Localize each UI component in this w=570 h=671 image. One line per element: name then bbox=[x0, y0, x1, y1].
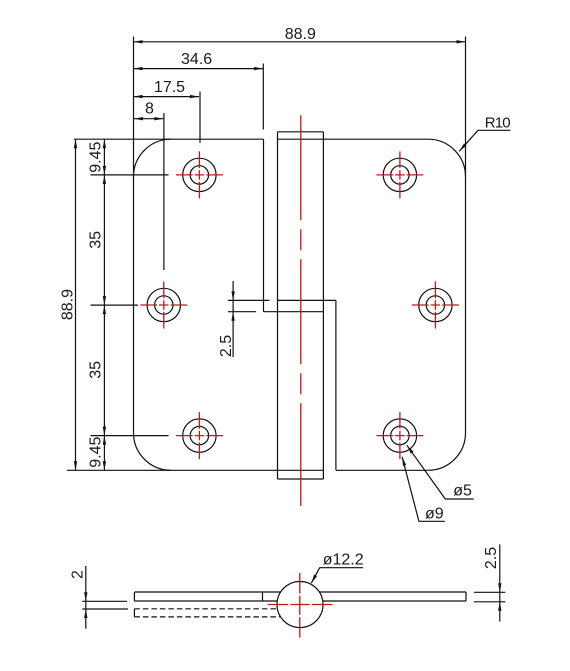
svg-text:88.9: 88.9 bbox=[285, 26, 316, 43]
side view knuckle circle bbox=[277, 582, 323, 628]
leader diameter 5 bbox=[406, 444, 474, 499]
knuckle left edge bbox=[277, 132, 279, 479]
side view hidden leaf top bbox=[134, 608, 277, 610]
svg-text:ø9: ø9 bbox=[425, 505, 444, 522]
svg-text:8: 8 bbox=[145, 100, 154, 117]
extension row1 left bbox=[91, 174, 169, 176]
side view leaf joint tick bbox=[262, 592, 264, 601]
bottom-right corner arc R10 bbox=[428, 433, 465, 470]
leader R10 bbox=[458, 115, 510, 153]
svg-text:9.45: 9.45 bbox=[88, 142, 105, 173]
svg-text:2: 2 bbox=[70, 570, 87, 579]
left leaf top edge bbox=[171, 138, 264, 140]
dimension 2 side bbox=[70, 566, 129, 629]
hole H2 mid-left bbox=[140, 282, 187, 329]
top-right corner arc R10 bbox=[428, 139, 465, 176]
right leaf bottom edge bbox=[336, 469, 428, 471]
side view bar bottom edge bbox=[134, 600, 466, 602]
side view bar right end bbox=[465, 592, 467, 601]
hole H5 mid-right bbox=[412, 282, 459, 329]
dimension 88.9 left bbox=[60, 139, 78, 470]
svg-text:34.6: 34.6 bbox=[181, 51, 212, 68]
dimension 2.5 side bbox=[474, 544, 506, 621]
extension row2 left bbox=[91, 304, 139, 306]
side view hidden leaf bottom bbox=[134, 616, 280, 618]
svg-text:R10: R10 bbox=[485, 115, 511, 132]
pin center line bbox=[300, 115, 302, 506]
dimension 88.9 top bbox=[134, 26, 466, 43]
side view bar left end bbox=[133, 592, 135, 601]
svg-text:88.9: 88.9 bbox=[60, 289, 77, 320]
svg-text:2.5: 2.5 bbox=[483, 547, 500, 569]
extension top edge left bbox=[74, 138, 171, 140]
right leaf lower-left edge bbox=[335, 300, 337, 470]
knuckle cap bottom line and right leaf top edge bbox=[278, 138, 429, 140]
svg-text:35: 35 bbox=[87, 361, 104, 379]
svg-text:9.45: 9.45 bbox=[88, 437, 105, 468]
hole H3 bottom-left bbox=[176, 412, 223, 459]
lower barrel top edge bbox=[264, 311, 324, 313]
left chain dimension line bbox=[103, 139, 106, 470]
hole H1 top-left bbox=[176, 151, 223, 198]
leader diameter 9 bbox=[400, 456, 444, 522]
right leaf right edge with extension bbox=[465, 37, 467, 433]
hole H4 top-right bbox=[376, 151, 423, 198]
dimension 2.5 middle bbox=[218, 281, 256, 357]
left leaf bottom edge bbox=[171, 469, 324, 471]
svg-text:17.5: 17.5 bbox=[154, 79, 185, 96]
side view bar top edge bbox=[134, 591, 466, 593]
left leaf left edge with extension bbox=[133, 37, 135, 433]
side view circle center line horizontal bbox=[268, 604, 333, 606]
leader diameter 12.2 bbox=[310, 551, 364, 584]
side view hidden leaf left end bbox=[133, 609, 135, 617]
extension row3 left bbox=[91, 435, 169, 437]
dimension 34.6 bbox=[134, 51, 264, 130]
top-left corner arc R10 bbox=[134, 139, 171, 176]
hole H6 bottom-right bbox=[376, 412, 423, 459]
knuckle cap bottom bbox=[278, 478, 324, 480]
upper barrel bottom edge bbox=[228, 299, 336, 301]
left leaf right edge bbox=[263, 139, 265, 312]
extension bottom edge left bbox=[67, 469, 171, 471]
svg-text:ø12.2: ø12.2 bbox=[323, 551, 364, 568]
bottom-left corner arc R10 bbox=[134, 433, 171, 470]
knuckle right edge bbox=[322, 132, 324, 479]
knuckle cap top bbox=[278, 131, 324, 133]
svg-text:2.5: 2.5 bbox=[218, 335, 235, 357]
dimension 8 bbox=[134, 100, 164, 270]
svg-text:35: 35 bbox=[87, 231, 104, 249]
side view circle center line vertical bbox=[299, 573, 301, 638]
svg-text:ø5: ø5 bbox=[453, 483, 472, 500]
dimension 17.5 bbox=[134, 79, 201, 143]
